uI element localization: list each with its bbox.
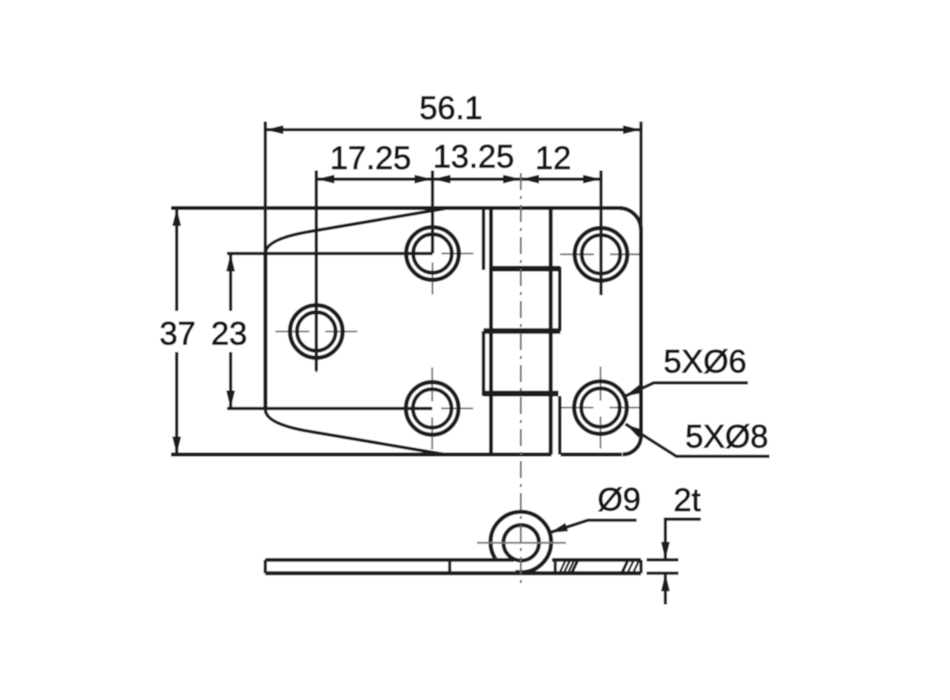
svg-text:2t: 2t	[674, 482, 701, 518]
svg-text:5XØ6: 5XØ6	[663, 344, 746, 380]
svg-text:56.1: 56.1	[419, 90, 482, 126]
svg-text:13.25: 13.25	[433, 139, 514, 175]
svg-text:12: 12	[535, 140, 571, 176]
svg-text:Ø9: Ø9	[598, 482, 641, 518]
svg-text:17.25: 17.25	[330, 140, 411, 176]
svg-text:5XØ8: 5XØ8	[685, 419, 768, 455]
svg-text:37: 37	[160, 316, 196, 352]
svg-text:23: 23	[211, 316, 247, 352]
